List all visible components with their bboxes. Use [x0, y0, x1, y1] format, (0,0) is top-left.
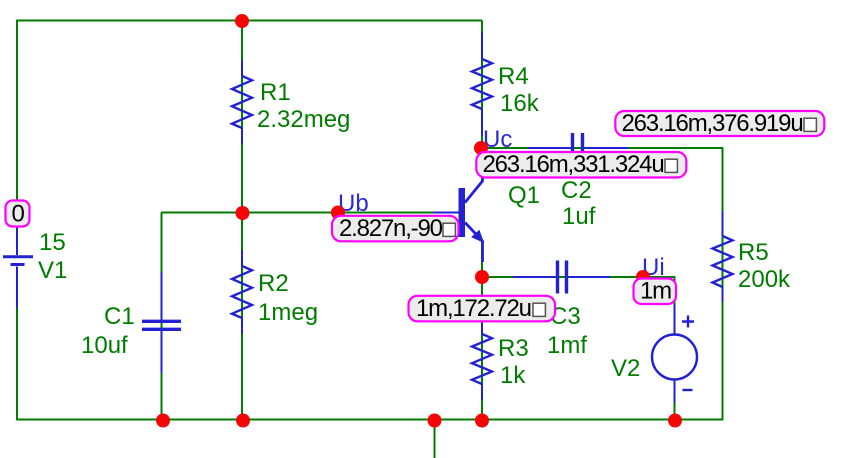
wire V2 branch — [674, 277, 676, 420]
svg-text:0: 0 — [12, 201, 25, 228]
probe value box output — [615, 110, 824, 137]
svg-text:2.32meg: 2.32meg — [257, 106, 350, 133]
junction dot top R1 — [235, 14, 249, 28]
svg-text:V2: V2 — [611, 355, 640, 382]
resistor R2 — [232, 250, 252, 334]
source V2 — [652, 304, 697, 403]
capacitor C1 — [142, 272, 181, 373]
wire left rail upper — [16, 20, 18, 202]
wire collector node row Uc — [481, 147, 723, 149]
wire R1 R2 column — [241, 21, 243, 420]
wire top rail — [17, 20, 482, 22]
junction dot emitter node — [475, 270, 489, 284]
junction dot bottom ground — [428, 414, 442, 428]
junction dot bottom R3 — [475, 414, 489, 428]
wire R4 column — [481, 21, 483, 149]
wire emitter row — [482, 276, 676, 278]
svg-text:R3: R3 — [498, 335, 529, 362]
wire left rail lower — [16, 308, 18, 421]
svg-text:263.16m,331.324u: 263.16m,331.324u — [483, 151, 664, 178]
probe value box Ub — [332, 215, 459, 242]
svg-text:200k: 200k — [738, 266, 791, 293]
svg-text:1k: 1k — [500, 362, 526, 389]
svg-text:2.827n,-90: 2.827n,-90 — [339, 215, 443, 242]
wire R3 column — [481, 277, 483, 420]
svg-text:R5: R5 — [738, 239, 769, 266]
junction dot bottom V2 — [668, 414, 682, 428]
wire C1 branch — [161, 213, 163, 420]
svg-text:10uf: 10uf — [81, 332, 128, 359]
svg-text:1meg: 1meg — [258, 299, 318, 326]
svg-text:1mf: 1mf — [547, 332, 587, 359]
capacitor C2 — [528, 133, 628, 163]
node 0 value box — [6, 201, 30, 228]
svg-text:R4: R4 — [498, 63, 529, 90]
wire emitter column — [481, 241, 483, 278]
svg-text:1m: 1m — [640, 278, 671, 305]
resistor R4 — [472, 32, 492, 136]
wire base row y213 — [161, 212, 459, 214]
svg-text:C1: C1 — [104, 303, 135, 330]
probe value box emitter — [409, 295, 556, 322]
svg-text:C2: C2 — [561, 177, 592, 204]
wire R5 column — [722, 148, 724, 421]
wire bottom rail — [16, 419, 723, 421]
svg-text:Q1: Q1 — [508, 182, 540, 209]
svg-text:1uf: 1uf — [562, 203, 596, 230]
wire ground stub — [434, 420, 436, 458]
junction dot mid R1 R2 — [236, 206, 250, 220]
junction dot bottom R2 — [236, 414, 250, 428]
svg-text:15: 15 — [39, 229, 66, 256]
svg-text:R2: R2 — [258, 270, 289, 297]
junction dot node Uc — [474, 141, 488, 155]
resistor R3 — [472, 318, 492, 400]
svg-text:V1: V1 — [38, 257, 67, 284]
source V1 battery — [3, 227, 33, 308]
svg-text:1m,172.72u: 1m,172.72u — [416, 295, 531, 322]
probe value box Ui — [634, 278, 677, 305]
probe value box Uc — [476, 151, 686, 178]
junction dot node Ub — [331, 206, 345, 220]
resistor R5 — [713, 211, 733, 302]
transistor Q1 — [433, 160, 484, 262]
junction dot node Ui — [636, 270, 650, 284]
svg-text:16k: 16k — [500, 90, 540, 117]
junction dot bottom C1 — [156, 414, 170, 428]
svg-text:263.16m,376.919u: 263.16m,376.919u — [622, 110, 803, 137]
svg-text:R1: R1 — [260, 79, 291, 106]
resistor R1 — [232, 60, 252, 144]
capacitor C3 — [513, 261, 610, 294]
